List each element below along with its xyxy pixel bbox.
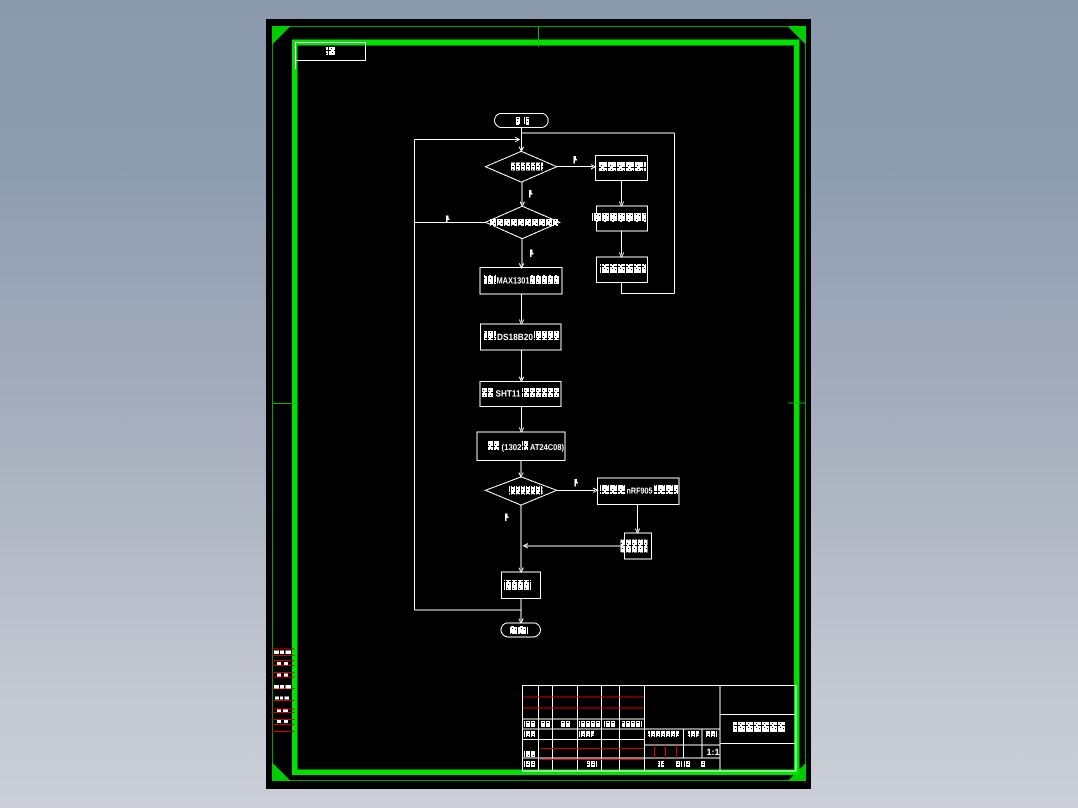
svg-text:nRF905: nRF905 bbox=[627, 486, 653, 496]
corner triangle top-right bbox=[787, 26, 806, 45]
title block header row labels bbox=[524, 721, 642, 727]
wire D2 left to loop bbox=[414, 221, 485, 223]
wire D1 to D2 bbox=[520, 182, 524, 206]
svg-text:DS18B20: DS18B20 bbox=[497, 332, 533, 342]
top centering tick bbox=[537, 27, 539, 47]
process box4: store to 1302 and AT24C08 bbox=[477, 432, 565, 460]
wire send box to send-ok box bbox=[635, 505, 639, 533]
wire to box finish-setting bbox=[619, 181, 623, 206]
wire D3 to display box bbox=[519, 505, 523, 572]
decision D3: need to send? bbox=[486, 477, 557, 505]
wire bottom loop bbox=[414, 609, 521, 611]
arrow into decision1 bbox=[519, 147, 523, 151]
process box: finish setting and store bbox=[592, 206, 647, 231]
design row labels bbox=[524, 731, 594, 737]
label n on D2 left branch bbox=[446, 216, 450, 224]
corner triangle top-left bbox=[272, 26, 291, 45]
wire box3 to box4 bbox=[519, 407, 523, 432]
process row labels bbox=[524, 761, 597, 767]
wire left loop return horizontal bbox=[414, 137, 519, 141]
stamp text rows bbox=[274, 651, 291, 724]
end terminal bbox=[501, 623, 540, 637]
wire left loop vertical bbox=[413, 140, 415, 610]
sheet count row labels bbox=[658, 761, 706, 767]
wire right loop bottom bbox=[622, 283, 675, 294]
process box: send finished bbox=[621, 533, 652, 559]
svg-text:1:1: 1:1 bbox=[707, 747, 720, 757]
label y on D1 right branch bbox=[574, 156, 578, 164]
wire box1 to box2 bbox=[519, 294, 523, 324]
stamp red rule lines bbox=[272, 649, 295, 731]
process box: exit setting mode bbox=[597, 257, 648, 283]
title block grid white lines bbox=[523, 686, 797, 772]
svg-text:(1302: (1302 bbox=[502, 442, 522, 452]
stage mark / weight / scale labels bbox=[648, 731, 717, 737]
wire start to decision1 bbox=[521, 128, 523, 152]
drawing title: system program flow chart bbox=[733, 722, 785, 732]
process box1: run MAX1301 A/D conversion bbox=[480, 268, 562, 294]
process box3: run SHT11 acquisition subroutine bbox=[480, 381, 561, 406]
process box: enter setting UI bbox=[596, 155, 648, 180]
wire to box exit-setting bbox=[619, 231, 623, 257]
svg-text:SHT11: SHT11 bbox=[496, 388, 521, 398]
wire send-ok back to main line bbox=[524, 544, 625, 548]
wire display box to end bbox=[519, 598, 523, 623]
label y below D2 bbox=[530, 250, 534, 258]
svg-text:MAX1301: MAX1301 bbox=[497, 275, 530, 285]
process box2: run DS18B20 acquisition bbox=[481, 324, 562, 350]
thick green frame bbox=[295, 42, 797, 772]
scale value 1:1 bbox=[707, 747, 720, 757]
decision D1: key pressed? bbox=[485, 151, 556, 182]
wire D1 to box enter-setup bbox=[557, 165, 596, 169]
wire right loop right vertical bbox=[674, 133, 676, 294]
outer thin green border line bbox=[273, 27, 806, 781]
audit row label bbox=[524, 751, 536, 757]
corner triangle bottom-right bbox=[788, 763, 807, 782]
wire box4 to D3 bbox=[519, 460, 523, 477]
right centering tick bbox=[788, 402, 806, 404]
wire box2 to box3 bbox=[519, 350, 523, 381]
label n below D3 bbox=[505, 514, 509, 522]
label y on D3 right branch bbox=[574, 479, 578, 487]
wire D2 to box1 bbox=[519, 239, 523, 268]
process box: send to display bbox=[501, 572, 540, 598]
label n below D1 bbox=[529, 190, 533, 198]
title block red lines bbox=[523, 697, 677, 759]
top-left label box bbox=[296, 43, 366, 70]
decision D2: timer reached? bbox=[486, 206, 560, 239]
wire right loop top bbox=[522, 132, 675, 134]
wire D3 to wireless send box bbox=[557, 488, 598, 492]
process box: enter wireless nRF905 send program bbox=[597, 478, 679, 505]
start terminal bbox=[495, 113, 549, 127]
svg-text:AT24C08): AT24C08) bbox=[530, 442, 564, 452]
corner triangle bottom-left bbox=[272, 763, 291, 782]
left centering tick bbox=[273, 402, 299, 404]
